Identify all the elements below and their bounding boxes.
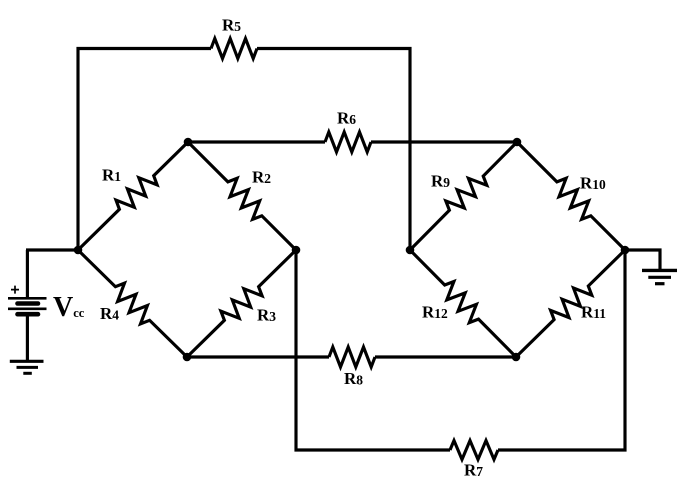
junction dot node B (left bridge top) [184,138,193,147]
resistor R1 [78,142,188,250]
junction dot node A (left bridge left) [74,246,83,255]
ground (below battery) bar 2 [17,366,39,369]
battery plus sign [11,286,19,294]
resistor R9 [410,142,517,250]
wire battery to node A [26,248,78,251]
wire node G to right ground [625,250,660,269]
ground (right) bar 1 [642,269,677,272]
battery Vcc plate 4 (short thick) [18,312,39,317]
wire bottom rail to node G [498,250,625,450]
junction dot node E (right bridge left) [406,246,415,255]
wire node C down to bottom rail [296,250,450,450]
junction dot node D (left bridge bottom) [183,353,192,362]
resistor R7 [450,441,498,460]
resistor R8 [329,347,375,367]
svg-text:R5: R5 [222,15,241,34]
wire top rail (right of R5) and drop to node E [257,49,410,251]
wire R8 to node H [375,355,516,358]
resistor R12 [410,250,516,357]
svg-text:R2: R2 [252,168,271,187]
svg-text:R7: R7 [464,461,483,480]
resistor R10 [517,142,625,250]
svg-text:R4: R4 [100,304,119,323]
svg-text:Vcc: Vcc [53,292,85,323]
wire R6 to node F [371,140,517,143]
battery Vcc plate 2 (short thick) [18,301,39,306]
junction dot node C (left bridge right) [292,246,301,255]
junction dot node H (right bridge bottom) [512,353,521,362]
svg-text:R10: R10 [580,174,606,193]
resistor R5 [211,39,257,59]
ground (right) bar 3 [655,282,665,285]
ground (below battery) bar 1 [10,360,44,363]
svg-text:R6: R6 [337,109,356,128]
svg-text:R12: R12 [422,302,448,321]
junction dot node G (right bridge right) [621,246,630,255]
svg-text:R8: R8 [344,369,363,388]
battery Vcc plate 1 (long) [8,297,47,300]
wire node A riser and top rail (left of R5) [78,49,211,251]
junction dot node F (right bridge top) [513,138,522,147]
svg-text:R11: R11 [581,303,606,322]
ground (right) bar 2 [648,276,671,279]
wire node B to R6 [188,140,325,143]
wire node D to R8 [187,355,329,358]
resistor R11 [516,250,625,357]
resistor R2 [188,142,296,250]
wire node A to battery top [26,250,29,297]
wire battery bottom to ground [26,316,29,361]
resistor R4 [78,250,187,357]
svg-text:R1: R1 [102,166,121,185]
battery Vcc plate 3 (long) [8,307,47,310]
svg-text:R3: R3 [257,306,276,325]
resistor R6 [325,132,371,152]
ground (below battery) bar 3 [23,372,32,375]
resistor R3 [187,250,296,357]
svg-text:R9: R9 [431,172,450,191]
